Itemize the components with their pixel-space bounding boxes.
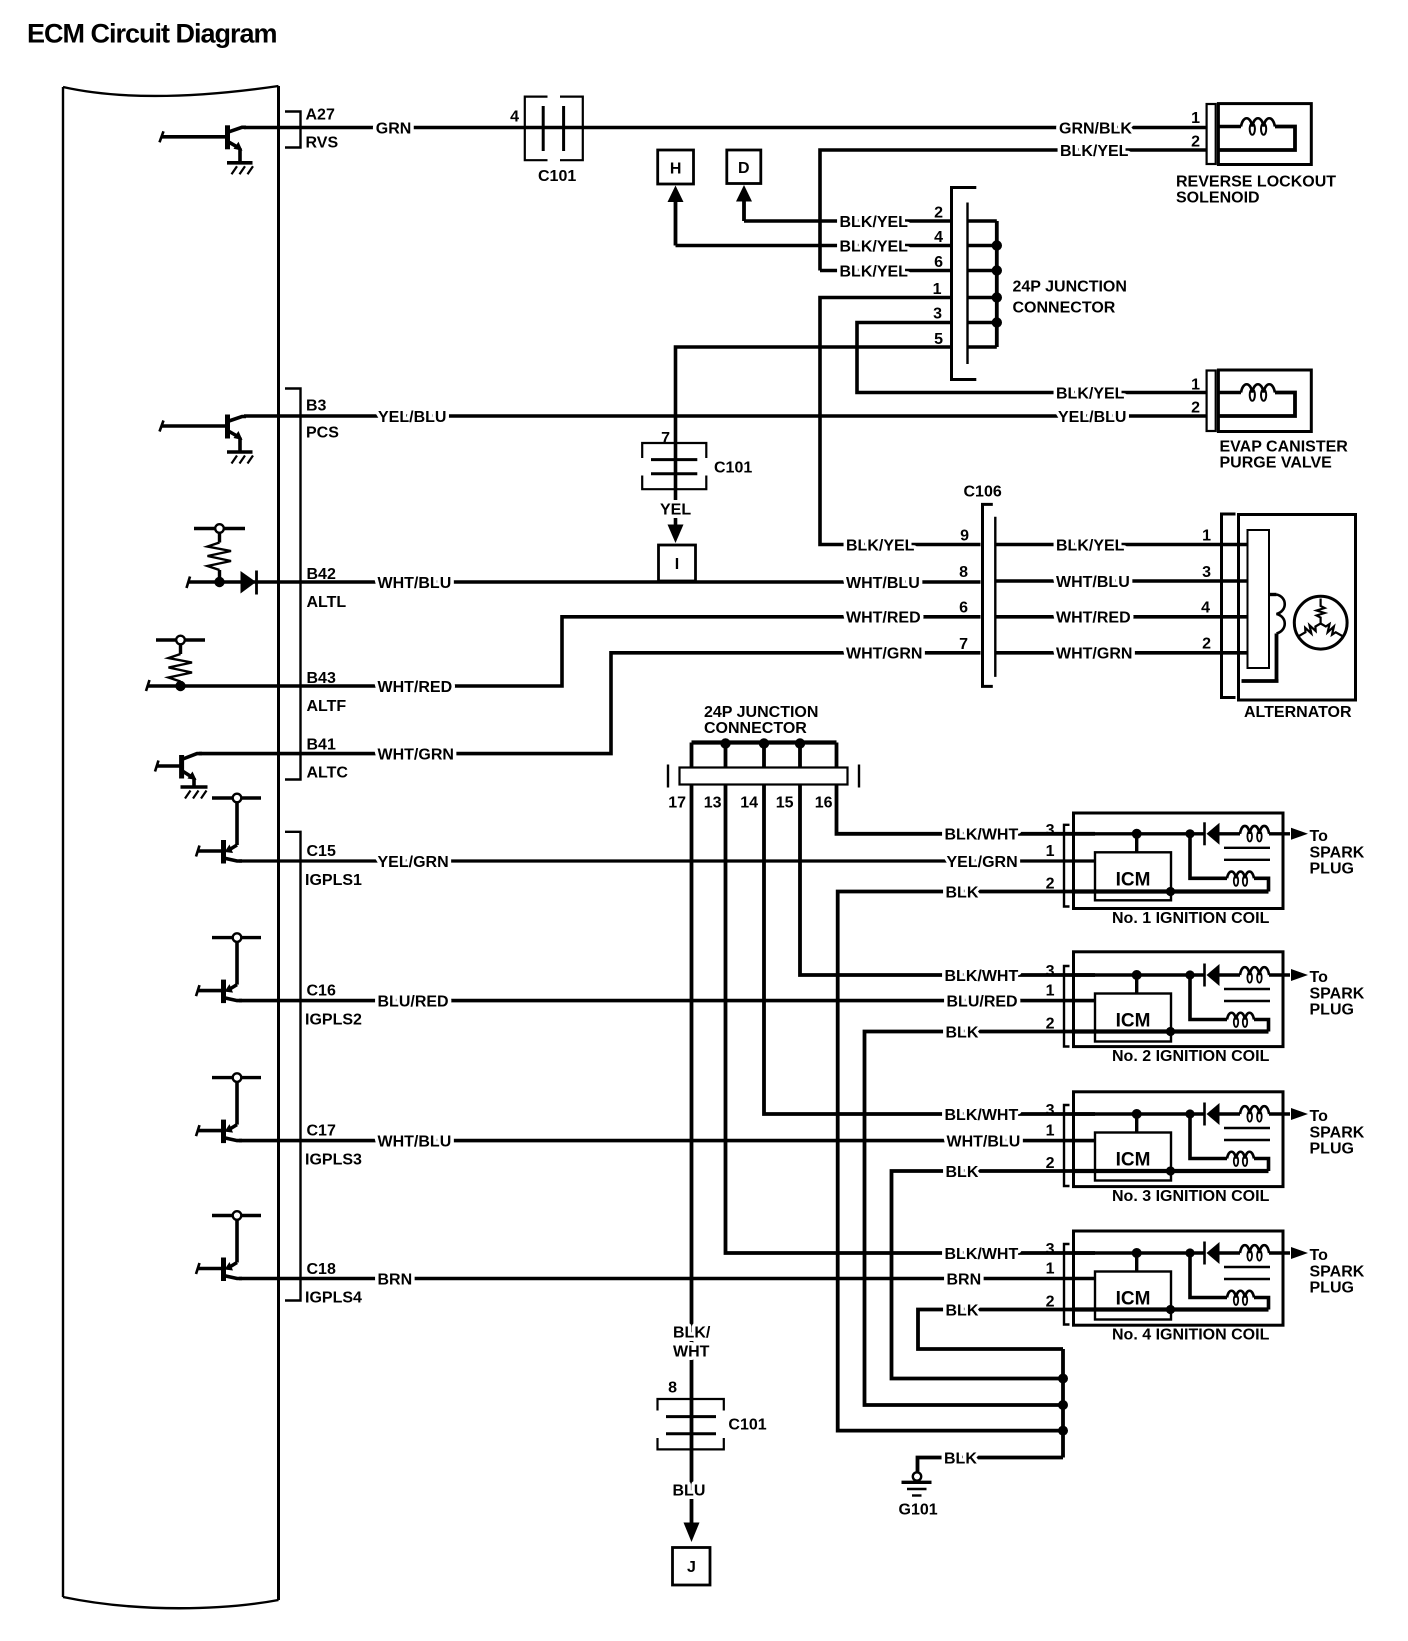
C106 right side labels [1056, 528, 1211, 663]
svg-text:15: 15 [776, 795, 794, 812]
secondary winding coil 1 [1190, 834, 1269, 892]
svg-text:WHT/RED: WHT/RED [846, 610, 921, 627]
svg-text:WHT/BLU: WHT/BLU [846, 575, 920, 592]
primary winding coil 1 [1220, 826, 1291, 842]
ICM module of coil 1 [1095, 852, 1171, 900]
svg-text:BLK: BLK [944, 1450, 977, 1467]
transistor Q-A27 (RVS driver) [160, 125, 247, 162]
svg-text:WHT/GRN: WHT/GRN [846, 646, 922, 663]
pin 2 ground line coil 2 [1074, 1027, 1269, 1036]
wire BLK/YEL from solenoid pin 2 [820, 150, 1207, 271]
svg-text:BLU: BLU [673, 1482, 706, 1499]
svg-text:D: D [738, 160, 750, 177]
coil 2 wire labels [945, 963, 1055, 1041]
svg-text:6: 6 [959, 600, 968, 617]
primary winding coil 4 [1220, 1245, 1291, 1261]
ICM module of coil 4 [1095, 1272, 1171, 1320]
wire BLK/WHT junction pin 15 to No.2 coil pin 3 [800, 785, 1095, 976]
svg-text:17: 17 [668, 795, 686, 812]
ECM module outline [63, 86, 279, 1608]
svg-text:4: 4 [934, 229, 943, 246]
svg-text:3: 3 [1046, 963, 1055, 980]
svg-text:BLU/RED: BLU/RED [378, 993, 449, 1010]
svg-text:1: 1 [1046, 983, 1055, 1000]
svg-text:PLUG: PLUG [1310, 860, 1354, 877]
connector C101 cavity 8 [658, 1380, 767, 1450]
core lines coil 4 [1224, 1267, 1270, 1279]
svg-text:To: To [1310, 828, 1329, 845]
pin B42/ALTL labels [307, 566, 347, 611]
resistor R-B43 [156, 636, 205, 692]
wire BLK/YEL to junction pin 6 [820, 269, 952, 273]
coil 1 wire labels [945, 822, 1055, 902]
svg-text:2: 2 [1046, 1294, 1055, 1311]
wire WHT/BLU (B42 to C106 pin 8) [244, 580, 981, 584]
C106 left side labels [846, 528, 969, 663]
transistor Q-C17 (IGPLS3) [196, 1082, 242, 1143]
pull-up rail for Q-C18 (IGPLS4) [212, 1211, 261, 1220]
ICM module of coil 3 [1095, 1133, 1171, 1181]
svg-text:EVAP CANISTER: EVAP CANISTER [1220, 439, 1349, 456]
svg-text:4: 4 [510, 109, 519, 126]
wire BLK/WHT junction pin 17 to C101 cavity 8 [690, 785, 694, 1451]
svg-text:1: 1 [1191, 377, 1200, 394]
connector D [727, 150, 761, 184]
svg-text:C106: C106 [964, 484, 1002, 501]
pull-up rail for Q-C17 (IGPLS3) [212, 1073, 261, 1082]
coil 4 wire labels [945, 1241, 1055, 1319]
svg-text:PLUG: PLUG [1310, 1280, 1354, 1297]
connector I [659, 545, 696, 581]
wire WHT/BLU C106 to alternator pin 3 [995, 579, 1247, 583]
pull-up rail for Q-C16 (IGPLS2) [212, 933, 261, 942]
svg-text:ICM: ICM [1116, 1289, 1151, 1310]
svg-text:1: 1 [1046, 1123, 1055, 1140]
svg-text:BLK/YEL: BLK/YEL [840, 214, 909, 231]
ECM pin group bracket C15..C18 [285, 832, 301, 1301]
wire BRN (C18 to No.4 coil pin 1) [239, 1277, 1095, 1281]
arrow to spark plug coil 3 [1291, 1108, 1365, 1158]
svg-text:YEL: YEL [660, 501, 691, 518]
svg-text:1: 1 [1191, 110, 1200, 127]
pin 1 stub into ICM coil 4 [1074, 1277, 1096, 1280]
svg-text:3: 3 [1046, 822, 1055, 839]
wire WHT/GRN (B41 to C106 pin 7) [199, 653, 981, 754]
ECM pin A27/RVS [285, 107, 338, 152]
wire BLK/YEL to junction pin 4 [676, 244, 952, 248]
svg-text:BLK: BLK [946, 1302, 979, 1319]
diode in coil 4 [1205, 1242, 1220, 1265]
No. 3 ignition coil box [1064, 1092, 1283, 1187]
lead tick B43 [146, 680, 150, 691]
primary winding coil 3 [1220, 1106, 1291, 1122]
svg-text:ALTERNATOR: ALTERNATOR [1244, 704, 1352, 721]
svg-text:1: 1 [1202, 528, 1211, 545]
pin B3/PCS labels [306, 398, 339, 442]
wire YEL below C101 [674, 489, 678, 526]
svg-text:4: 4 [1201, 600, 1210, 617]
ground at Q-A27 (RVS driver) [227, 163, 253, 175]
svg-text:CONNECTOR: CONNECTOR [704, 720, 807, 737]
svg-text:B3: B3 [306, 398, 327, 415]
svg-text:8: 8 [959, 564, 968, 581]
svg-text:To: To [1310, 969, 1329, 986]
svg-text:2: 2 [934, 205, 943, 222]
svg-text:ICM: ICM [1116, 1150, 1151, 1171]
diode D-B42 [187, 571, 257, 595]
svg-text:YEL/BLU: YEL/BLU [378, 409, 446, 426]
svg-text:BLK/YEL: BLK/YEL [840, 238, 909, 255]
svg-text:3: 3 [1046, 1102, 1055, 1119]
svg-text:PURGE VALVE: PURGE VALVE [1220, 455, 1333, 472]
svg-text:SPARK: SPARK [1310, 1125, 1365, 1142]
24P junction connector (lower) [668, 704, 859, 812]
svg-text:C16: C16 [307, 983, 336, 1000]
svg-text:C101: C101 [714, 460, 752, 477]
wire BLK/YEL C106 to alternator pin 1 [995, 543, 1247, 547]
svg-text:GRN: GRN [376, 120, 412, 137]
svg-text:BLK: BLK [946, 1024, 979, 1041]
wire BLK No.3 coil to ground bus [892, 1171, 1074, 1379]
secondary winding coil 3 [1190, 1114, 1269, 1171]
svg-text:IGPLS1: IGPLS1 [305, 872, 362, 889]
svg-text:SOLENOID: SOLENOID [1176, 190, 1260, 207]
transistor Q-C18 (IGPLS4) [196, 1220, 242, 1281]
diode in coil 3 [1205, 1103, 1220, 1126]
wire label BLK/WHT (two lines) [673, 1325, 711, 1361]
svg-text:PLUG: PLUG [1310, 1141, 1354, 1158]
wire BLU/RED (C16 to No.2 coil pin 1) [239, 999, 1095, 1003]
ground G101 [899, 1472, 938, 1518]
svg-text:BLK/YEL: BLK/YEL [840, 263, 909, 280]
connector C106 [964, 484, 1002, 687]
svg-text:REVERSE LOCKOUT: REVERSE LOCKOUT [1176, 174, 1336, 191]
wire WHT/RED C106 to alternator pin 4 [995, 615, 1247, 619]
svg-text:3: 3 [1202, 564, 1211, 581]
reverse lockout solenoid [1176, 104, 1336, 207]
svg-text:B41: B41 [307, 737, 336, 754]
pin C18/IGPLS4 labels [305, 1261, 362, 1307]
ground at Q-B41 [181, 787, 208, 799]
wire BLK/WHT junction pin 16 to No.1 coil pin 3 [837, 785, 1096, 834]
svg-text:2: 2 [1202, 636, 1211, 653]
svg-text:1: 1 [1046, 1261, 1055, 1278]
svg-text:WHT/GRN: WHT/GRN [378, 746, 454, 763]
svg-text:ECM Circuit Diagram: ECM Circuit Diagram [27, 19, 277, 49]
pin B43/ALTF labels [307, 670, 347, 715]
transistor Q-B41 (ALTC driver) [155, 754, 202, 786]
svg-text:WHT/BLU: WHT/BLU [378, 575, 452, 592]
arrow to I [668, 525, 684, 544]
svg-text:ICM: ICM [1116, 869, 1151, 890]
svg-text:ALTL: ALTL [307, 594, 347, 611]
svg-text:IGPLS4: IGPLS4 [305, 1290, 362, 1307]
svg-text:ALTC: ALTC [307, 765, 349, 782]
connector J [673, 1548, 711, 1586]
svg-text:RVS: RVS [306, 135, 339, 152]
svg-text:WHT/BLU: WHT/BLU [947, 1133, 1021, 1150]
pin 2 ground line coil 4 [1074, 1305, 1269, 1314]
arrow to H [668, 186, 684, 246]
svg-text:BLK/WHT: BLK/WHT [945, 1107, 1019, 1124]
coil 3 wire labels [945, 1102, 1055, 1181]
coil 2 internal power rail [1074, 973, 1205, 976]
wire BLK No.2 coil to ground bus [865, 1032, 1074, 1406]
svg-text:14: 14 [740, 795, 758, 812]
coil 3 internal power rail [1074, 1112, 1205, 1115]
svg-text:2: 2 [1046, 1016, 1055, 1033]
svg-text:J: J [687, 1559, 696, 1576]
svg-text:6: 6 [934, 254, 943, 271]
pin 1 stub into ICM coil 2 [1074, 999, 1096, 1002]
wire YEL/GRN (C15 to No.1 coil pin 1) [239, 859, 1095, 862]
svg-text:BLK/WHT: BLK/WHT [945, 827, 1019, 844]
svg-text:2: 2 [1191, 400, 1200, 417]
connector H [658, 150, 694, 184]
svg-text:2: 2 [1191, 134, 1200, 151]
core lines coil 1 [1224, 848, 1270, 860]
svg-text:No. 2 IGNITION COIL: No. 2 IGNITION COIL [1112, 1048, 1270, 1065]
wire BLK to G101 [918, 1458, 1064, 1473]
svg-text:H: H [670, 161, 682, 178]
svg-text:BLK/: BLK/ [673, 1325, 711, 1342]
svg-text:BLK: BLK [946, 884, 979, 901]
transistor Q-C16 (IGPLS2) [196, 942, 242, 1003]
pull-up rail for Q-C15 (IGPLS1) [212, 794, 261, 803]
svg-text:C17: C17 [307, 1123, 336, 1140]
svg-text:WHT/BLU: WHT/BLU [1056, 574, 1130, 591]
No. 1 ignition coil box [1064, 813, 1283, 909]
wire WHT/GRN C106 to alternator pin 2 [995, 651, 1247, 655]
wire junction pin 1 to C106 pin 9 [820, 298, 981, 545]
svg-text:WHT/BLU: WHT/BLU [378, 1133, 452, 1150]
arrow to J [684, 1523, 700, 1543]
wire junction pin 3 to EVAP pin 1 [857, 323, 1207, 393]
svg-text:2: 2 [1046, 876, 1055, 893]
svg-text:3: 3 [933, 306, 942, 323]
svg-text:YEL/GRN: YEL/GRN [947, 854, 1018, 871]
svg-text:7: 7 [661, 430, 670, 447]
svg-text:BLK/YEL: BLK/YEL [846, 537, 915, 554]
No. 2 ignition coil box [1064, 952, 1283, 1047]
secondary winding coil 4 [1190, 1253, 1269, 1310]
wire GRN / GRN-BLK (A27 to reverse lockout solenoid) [244, 126, 1207, 130]
resistor R-B42 [194, 524, 245, 587]
core lines coil 3 [1224, 1128, 1270, 1140]
arrow to spark plug coil 1 [1291, 828, 1365, 878]
svg-text:PCS: PCS [306, 425, 339, 442]
svg-text:WHT/RED: WHT/RED [378, 679, 453, 696]
pin 1 stub into ICM coil 3 [1074, 1139, 1096, 1142]
svg-text:WHT/RED: WHT/RED [1056, 610, 1131, 627]
svg-text:C15: C15 [307, 843, 336, 860]
pin C15/IGPLS1 labels [305, 843, 362, 889]
svg-text:PLUG: PLUG [1310, 1002, 1354, 1019]
svg-text:No. 1 IGNITION COIL: No. 1 IGNITION COIL [1112, 910, 1270, 927]
svg-text:I: I [675, 556, 679, 573]
alternator [1222, 514, 1356, 700]
svg-text:No. 4 IGNITION COIL: No. 4 IGNITION COIL [1112, 1327, 1270, 1344]
svg-text:BLK: BLK [946, 1164, 979, 1181]
wire WHT/BLU (C17 to No.3 coil pin 1) [239, 1139, 1095, 1143]
arrow to D [736, 185, 752, 221]
svg-text:24P JUNCTION: 24P JUNCTION [1013, 279, 1127, 296]
svg-text:7: 7 [959, 636, 968, 653]
svg-text:No. 3 IGNITION COIL: No. 3 IGNITION COIL [1112, 1188, 1270, 1205]
svg-text:SPARK: SPARK [1310, 1264, 1365, 1281]
wire YEL/BLU (B3 to EVAP pin 2) [244, 414, 1207, 418]
wire BLK/WHT junction pin 13 to No.4 coil pin 3 [726, 785, 1096, 1254]
svg-text:2: 2 [1046, 1155, 1055, 1172]
svg-text:BLK/YEL: BLK/YEL [1060, 143, 1129, 160]
pin C16/IGPLS2 labels [305, 983, 362, 1029]
No. 4 ignition coil box [1064, 1231, 1283, 1325]
connector C101 cavity 4 [510, 97, 583, 185]
svg-text:8: 8 [668, 1380, 677, 1397]
svg-text:WHT: WHT [673, 1344, 710, 1361]
svg-text:BLK/YEL: BLK/YEL [1056, 385, 1125, 402]
svg-text:BLK/YEL: BLK/YEL [1056, 537, 1125, 554]
coil 1 internal power rail [1074, 832, 1205, 835]
svg-text:BLK/WHT: BLK/WHT [945, 1246, 1019, 1263]
secondary winding coil 2 [1190, 975, 1269, 1032]
svg-text:5: 5 [934, 331, 943, 348]
svg-text:CONNECTOR: CONNECTOR [1013, 300, 1116, 317]
svg-text:BRN: BRN [378, 1271, 413, 1288]
ECM pin group bracket B3..B41 [285, 389, 301, 780]
svg-text:BRN: BRN [947, 1271, 982, 1288]
svg-text:1: 1 [933, 281, 942, 298]
pin C17/IGPLS3 labels [305, 1123, 362, 1169]
ground at Q-B3 (PCS driver) [227, 452, 253, 464]
svg-text:C101: C101 [538, 168, 576, 185]
ground bus vertical [1061, 1349, 1065, 1458]
arrow to spark plug coil 4 [1291, 1247, 1365, 1297]
svg-text:16: 16 [815, 795, 833, 812]
diode in coil 2 [1205, 964, 1220, 987]
wire BLK/YEL to junction pin 2 [744, 219, 952, 223]
svg-text:ICM: ICM [1116, 1011, 1151, 1032]
ICM module of coil 2 [1095, 994, 1171, 1042]
svg-text:GRN/BLK: GRN/BLK [1059, 120, 1132, 137]
arrow to spark plug coil 2 [1291, 969, 1365, 1019]
svg-text:ALTF: ALTF [307, 698, 347, 715]
EVAP canister purge valve [1191, 370, 1348, 472]
svg-text:IGPLS3: IGPLS3 [305, 1152, 362, 1169]
svg-text:1: 1 [1046, 843, 1055, 860]
primary winding coil 2 [1220, 967, 1291, 983]
svg-text:SPARK: SPARK [1310, 844, 1365, 861]
svg-text:BLU/RED: BLU/RED [947, 993, 1018, 1010]
wire BLU below C101 [690, 1449, 694, 1524]
svg-text:IGPLS2: IGPLS2 [305, 1012, 362, 1029]
svg-text:To: To [1310, 1247, 1329, 1264]
transistor Q-C15 (IGPLS1) [196, 802, 242, 863]
pin B41/ALTC labels [307, 737, 349, 782]
wire junction pin 5 to C101 cavity 7 [676, 347, 952, 490]
wire BLK/WHT junction pin 14 to No.3 coil pin 3 [764, 785, 1095, 1115]
pin 2 ground line coil 1 [1074, 887, 1269, 896]
wire BLK No.1 coil to ground bus [838, 892, 1074, 1431]
pin 1 stub into ICM coil 1 [1074, 860, 1096, 863]
24P junction connector (upper) [933, 188, 1127, 380]
svg-text:9: 9 [960, 528, 969, 545]
pin 2 ground line coil 3 [1074, 1166, 1269, 1175]
svg-text:BLK/WHT: BLK/WHT [945, 968, 1019, 985]
core lines coil 2 [1224, 989, 1270, 1001]
svg-text:To: To [1310, 1108, 1329, 1125]
alternator 3-phase windings circle [1294, 596, 1347, 649]
svg-text:YEL/GRN: YEL/GRN [378, 854, 449, 871]
diode in coil 1 [1205, 822, 1220, 845]
svg-text:A27: A27 [306, 107, 335, 124]
svg-text:YEL/BLU: YEL/BLU [1058, 409, 1126, 426]
wire WHT/RED (B43 to C106 pin 6) [147, 617, 981, 686]
svg-text:WHT/GRN: WHT/GRN [1056, 646, 1132, 663]
svg-text:G101: G101 [899, 1502, 938, 1519]
svg-text:C101: C101 [728, 1417, 766, 1434]
svg-text:24P JUNCTION: 24P JUNCTION [704, 704, 818, 721]
svg-text:13: 13 [704, 795, 722, 812]
coil 4 internal power rail [1074, 1251, 1205, 1254]
svg-text:3: 3 [1046, 1241, 1055, 1258]
transistor Q-B3 (PCS driver) [160, 415, 247, 452]
svg-text:SPARK: SPARK [1310, 986, 1365, 1003]
connector C101 cavity 7 [642, 430, 752, 489]
svg-text:C18: C18 [307, 1261, 336, 1278]
wire BLK No.4 coil to ground bus [918, 1310, 1074, 1350]
